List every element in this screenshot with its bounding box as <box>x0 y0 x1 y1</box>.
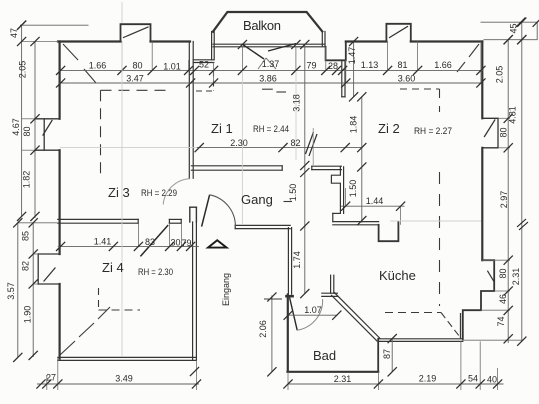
svg-text:4.81: 4.81 <box>508 106 518 124</box>
svg-text:RH = 2.27: RH = 2.27 <box>414 126 452 136</box>
svg-text:Bad: Bad <box>313 348 336 363</box>
svg-text:3.60: 3.60 <box>398 74 416 84</box>
svg-text:52: 52 <box>199 60 209 70</box>
svg-text:Gang: Gang <box>241 192 273 207</box>
svg-text:82: 82 <box>290 138 300 148</box>
svg-text:1.50: 1.50 <box>288 184 298 202</box>
svg-text:2.05: 2.05 <box>495 66 505 84</box>
svg-text:1.07: 1.07 <box>304 305 322 315</box>
svg-text:54: 54 <box>468 374 478 384</box>
svg-text:2.31: 2.31 <box>511 268 521 286</box>
svg-text:RH = 2.29: RH = 2.29 <box>141 188 177 198</box>
svg-text:4.67: 4.67 <box>11 118 21 136</box>
svg-text:2.31: 2.31 <box>334 374 352 384</box>
svg-text:28: 28 <box>328 61 338 71</box>
svg-text:40: 40 <box>487 375 497 385</box>
svg-text:Zi 2: Zi 2 <box>378 121 400 136</box>
svg-text:1.66: 1.66 <box>89 61 107 71</box>
svg-text:Zi 3: Zi 3 <box>108 185 130 200</box>
svg-text:80: 80 <box>499 127 509 137</box>
svg-text:Zi 4: Zi 4 <box>102 260 124 275</box>
svg-text:45: 45 <box>509 23 519 33</box>
svg-text:Balkon: Balkon <box>243 18 281 33</box>
svg-text:RH = 2.44: RH = 2.44 <box>253 124 289 134</box>
svg-text:47: 47 <box>9 28 19 38</box>
svg-text:80: 80 <box>22 126 32 136</box>
svg-text:82: 82 <box>21 261 31 271</box>
svg-text:79: 79 <box>181 238 191 248</box>
svg-text:46: 46 <box>498 294 508 304</box>
svg-text:1.41: 1.41 <box>94 236 112 246</box>
svg-text:Zi 1: Zi 1 <box>211 121 233 136</box>
svg-text:1.47: 1.47 <box>347 47 357 65</box>
svg-text:2.97: 2.97 <box>499 191 509 209</box>
svg-text:81: 81 <box>397 60 407 70</box>
svg-text:1.74: 1.74 <box>292 251 302 269</box>
svg-text:Eingang: Eingang <box>221 273 231 306</box>
svg-text:85: 85 <box>21 231 31 241</box>
svg-text:3.18: 3.18 <box>292 94 302 112</box>
svg-text:74: 74 <box>496 316 506 326</box>
svg-text:27: 27 <box>46 373 56 383</box>
svg-text:2.19: 2.19 <box>419 374 437 384</box>
svg-text:Küche: Küche <box>379 268 416 283</box>
svg-text:80: 80 <box>498 268 508 278</box>
svg-text:87: 87 <box>382 349 392 359</box>
svg-text:1.82: 1.82 <box>22 171 32 189</box>
svg-text:1.13: 1.13 <box>361 60 379 70</box>
svg-text:2.30: 2.30 <box>230 138 248 148</box>
svg-text:RH = 2.30: RH = 2.30 <box>138 267 173 277</box>
svg-text:3.86: 3.86 <box>259 74 277 84</box>
svg-text:1.90: 1.90 <box>23 306 33 324</box>
svg-text:2.06: 2.06 <box>258 320 268 338</box>
svg-text:1.66: 1.66 <box>434 60 452 70</box>
svg-text:1.37: 1.37 <box>262 59 280 69</box>
svg-text:1.84: 1.84 <box>349 116 359 134</box>
svg-text:30: 30 <box>170 237 180 247</box>
svg-text:2.05: 2.05 <box>18 61 28 79</box>
svg-text:80: 80 <box>132 61 142 71</box>
svg-text:3.49: 3.49 <box>115 374 133 384</box>
svg-text:83: 83 <box>145 237 155 247</box>
svg-text:3.57: 3.57 <box>6 282 16 300</box>
svg-text:1.01: 1.01 <box>163 62 181 72</box>
svg-text:79: 79 <box>306 61 316 71</box>
svg-text:1.44: 1.44 <box>366 196 384 206</box>
svg-text:3.47: 3.47 <box>126 74 144 84</box>
svg-text:1.50: 1.50 <box>348 180 358 198</box>
